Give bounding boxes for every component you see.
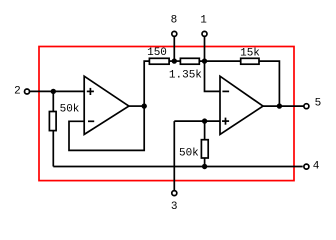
svg-text:2: 2 [14, 86, 21, 98]
svg-text:1: 1 [200, 15, 207, 27]
svg-text:50k: 50k [60, 103, 80, 115]
svg-text:3: 3 [171, 201, 178, 213]
svg-text:4: 4 [313, 160, 320, 172]
svg-text:5: 5 [315, 98, 322, 110]
svg-text:1.35k: 1.35k [169, 69, 202, 81]
svg-text:15k: 15k [240, 47, 260, 59]
svg-text:8: 8 [171, 15, 178, 27]
svg-text:50k: 50k [179, 147, 199, 159]
svg-text:150: 150 [147, 47, 167, 59]
